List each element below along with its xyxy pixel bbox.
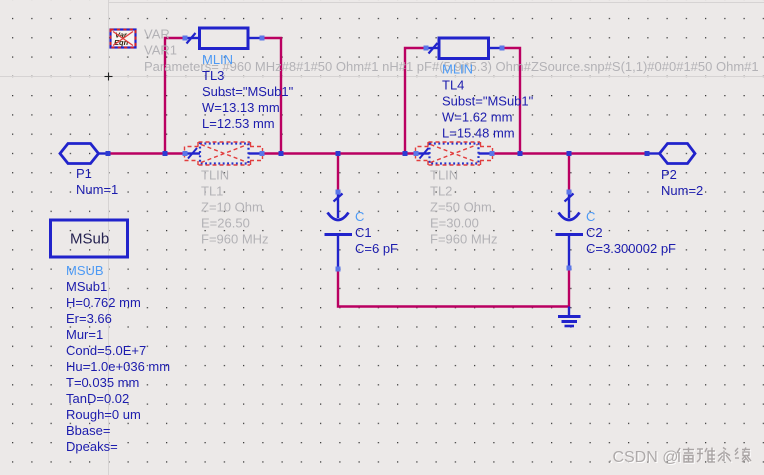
capacitor C1 labels (355, 209, 398, 256)
TLIN TL1 (deactivated) (185, 142, 263, 165)
svg-text:Num=2: Num=2 (661, 183, 703, 198)
capacitor C2 labels (586, 209, 676, 256)
MLIN TL3 (184, 28, 264, 49)
svg-text:TL1: TL1 (201, 184, 223, 199)
MSub substrate box (51, 220, 128, 257)
svg-text:C=6 pF: C=6 pF (355, 241, 398, 256)
svg-text:T=0.035 mm: T=0.035 mm (66, 375, 139, 390)
MLIN TL4 pin node 2 (500, 46, 505, 51)
svg-text:P2: P2 (661, 167, 677, 182)
svg-text:E=30.00: E=30.00 (430, 216, 479, 231)
MLIN TL4 pin node 1 (424, 46, 429, 51)
TLIN TL1 labels (grayed) (201, 168, 269, 247)
svg-text:Z=10 Ohm: Z=10 Ohm (201, 200, 263, 215)
svg-text:Hu=1.0e+036 mm: Hu=1.0e+036 mm (66, 359, 170, 374)
wire: MLIN TL3 bypass loop left (165, 38, 185, 154)
wire: MLIN TL4 bypass loop left (405, 48, 426, 154)
雅 (697, 448, 715, 463)
svg-text:TLIN: TLIN (201, 168, 229, 183)
TLIN TL2 labels (grayed) (430, 168, 498, 247)
TLIN TL1 pin node 2 (260, 151, 265, 156)
MLIN TL3 labels (202, 52, 294, 131)
svg-text:TLIN: TLIN (430, 168, 458, 183)
wire: main horizontal net P1 to TLIN TL1 (108, 152, 185, 154)
svg-text:F=960 MHz: F=960 MHz (430, 232, 498, 247)
port P2 (647, 144, 695, 164)
wire: MLIN TL3 bypass loop right (262, 38, 281, 154)
port P1 labels (76, 166, 118, 197)
MLIN TL3 pin node 2 (260, 36, 265, 41)
svg-text:C=3.300002 pF: C=3.300002 pF (586, 241, 676, 256)
wire: C1 top lead (337, 154, 339, 193)
svg-text:W=1.62 mm: W=1.62 mm (442, 110, 512, 125)
svg-text:MSub1: MSub1 (66, 279, 107, 294)
svg-text:TL2: TL2 (430, 184, 452, 199)
svg-text:VAR: VAR (144, 27, 170, 42)
儒 (677, 448, 694, 463)
svg-text:Subst="MSub1": Subst="MSub1" (442, 94, 534, 109)
永 (718, 448, 731, 462)
MLIN TL4 (426, 38, 502, 59)
watermark (608, 448, 751, 468)
缘 (735, 448, 751, 463)
svg-text:F=960 MHz: F=960 MHz (201, 232, 269, 247)
port P2 labels (661, 167, 703, 198)
TLIN TL2 pin node 1 (414, 151, 419, 156)
svg-text:C: C (586, 209, 595, 224)
VAR labels (grayed) (144, 27, 759, 74)
svg-text:TanD=0.02: TanD=0.02 (66, 391, 129, 406)
svg-text:VAR1: VAR1 (144, 43, 177, 58)
svg-text:Bbase=: Bbase= (66, 423, 110, 438)
svg-text:Rough=0 um: Rough=0 um (66, 407, 141, 422)
VAR equation component (deactivated) (111, 30, 136, 48)
svg-text:.CSDN @: .CSDN @ (608, 449, 678, 466)
capacitor C1 (325, 192, 353, 269)
svg-text:H=0.762 mm: H=0.762 mm (66, 295, 141, 310)
wire: TLIN TL1 to TLIN TL2 (262, 152, 416, 154)
svg-text:MSUB: MSUB (66, 263, 104, 278)
node junction squares on main net (106, 151, 650, 156)
svg-text:MSub: MSub (70, 231, 109, 248)
port P1 (60, 144, 108, 164)
svg-text:P1: P1 (76, 166, 92, 181)
wire: TLIN TL2 to P2 (492, 152, 647, 154)
svg-text:L=15.48 mm: L=15.48 mm (442, 126, 515, 141)
svg-text:C2: C2 (586, 225, 603, 240)
svg-text:Z=50 Ohm: Z=50 Ohm (430, 200, 492, 215)
svg-text:Er=3.66: Er=3.66 (66, 311, 112, 326)
capacitor C1 pin nodes (336, 190, 341, 272)
MLIN TL3 pin node 1 (183, 36, 188, 41)
wire: MLIN TL4 bypass loop right (502, 48, 520, 154)
TLIN TL1 pin node 1 (183, 151, 188, 156)
svg-text:W=13.13 mm: W=13.13 mm (202, 100, 280, 115)
wire: bottom ground rail (338, 268, 569, 307)
origin cross (105, 73, 113, 81)
ground (558, 307, 581, 327)
MSub parameter labels (66, 263, 170, 454)
svg-text:E=26.50: E=26.50 (201, 216, 250, 231)
svg-text:Cond=5.0E+7: Cond=5.0E+7 (66, 343, 146, 358)
svg-text:TL3: TL3 (202, 68, 224, 83)
capacitor C2 (556, 192, 584, 268)
svg-text:C: C (355, 209, 364, 224)
MLIN TL4 labels (442, 62, 534, 141)
svg-text:Dpeaks=: Dpeaks= (66, 439, 118, 454)
svg-text:TL4: TL4 (442, 78, 464, 93)
svg-text:MLIN: MLIN (202, 52, 233, 67)
TLIN TL2 pin node 2 (490, 151, 495, 156)
svg-text:L=12.53 mm: L=12.53 mm (202, 116, 275, 131)
capacitor C2 pin nodes (567, 190, 572, 271)
svg-text:Num=1: Num=1 (76, 182, 118, 197)
svg-text:MLIN: MLIN (442, 62, 473, 77)
svg-text:Mur=1: Mur=1 (66, 327, 103, 342)
svg-text:Subst="MSub1": Subst="MSub1" (202, 84, 294, 99)
TLIN TL2 (deactivated) (416, 142, 493, 165)
wire: C2 top lead (568, 154, 570, 193)
svg-text:C1: C1 (355, 225, 372, 240)
